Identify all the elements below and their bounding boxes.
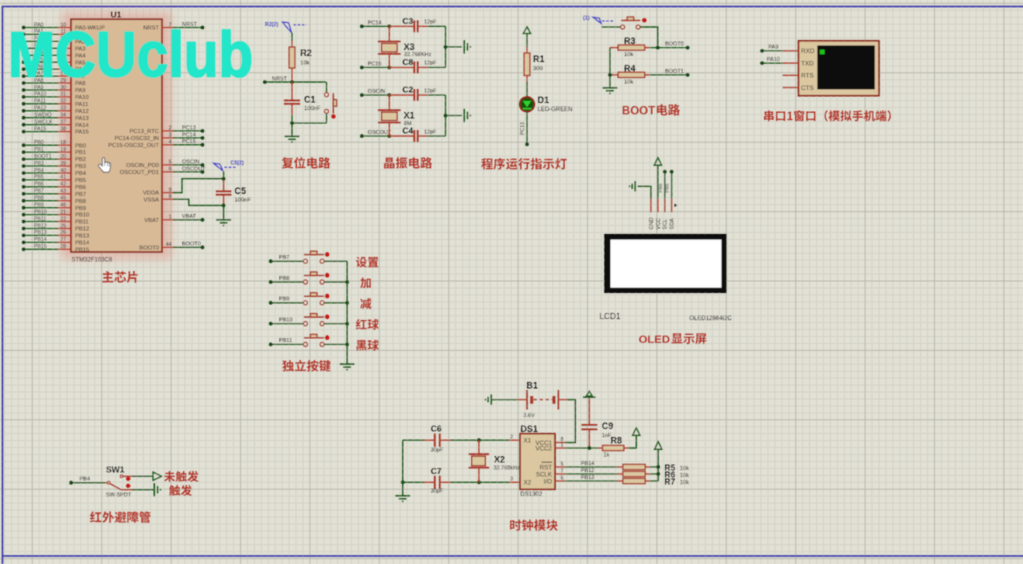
wire net PA7 to U1 pin 17 bbox=[22, 74, 58, 78]
wire net PA10 to U1 pin 31 bbox=[22, 95, 58, 99]
power symbol right 未触发 bbox=[153, 472, 162, 480]
svg-text:BOOT0: BOOT0 bbox=[182, 242, 201, 248]
wire C6 C7 left common bbox=[402, 440, 404, 495]
svg-text:SCLK: SCLK bbox=[536, 471, 553, 478]
svg-text:30pF: 30pF bbox=[431, 488, 444, 494]
DS1 pin 6 I/O bbox=[544, 475, 565, 485]
pushbutton key 减 bbox=[303, 293, 329, 305]
DS1 pin 1 VCC2 bbox=[535, 442, 565, 452]
wire net PB4 to SW1 bbox=[69, 477, 105, 485]
wire VDDA to C5 top bbox=[173, 179, 224, 193]
DS1 pin 3 X2 bbox=[509, 477, 531, 487]
svg-text:PB10: PB10 bbox=[279, 317, 292, 323]
svg-text:VBAT: VBAT bbox=[182, 214, 197, 220]
svg-text:STM32F103C8: STM32F103C8 bbox=[72, 258, 113, 264]
DS1 designator bbox=[520, 424, 538, 434]
net label PB8 rotated bbox=[658, 183, 664, 192]
pushbutton BOOT (horizontal) bbox=[602, 17, 647, 29]
svg-text:C1: C1 bbox=[304, 95, 316, 105]
svg-text:R2: R2 bbox=[300, 48, 312, 58]
wire net PA5 to U1 pin 15 bbox=[22, 60, 58, 64]
svg-text:28: 28 bbox=[60, 244, 66, 250]
crystal X3 bbox=[378, 26, 401, 67]
svg-text:3: 3 bbox=[169, 133, 172, 139]
crystal X1 bbox=[378, 95, 401, 136]
svg-text:4: 4 bbox=[169, 140, 172, 146]
wire net OSCIN from U1 pin 5 bbox=[173, 159, 204, 167]
label 触发 bbox=[169, 485, 192, 496]
svg-text:BOOT0: BOOT0 bbox=[665, 42, 684, 48]
wire net PA1 to U1 pin 11 bbox=[22, 33, 58, 37]
wire net BOOT0 bbox=[650, 42, 690, 50]
svg-text:39: 39 bbox=[60, 161, 66, 167]
svg-text:1: 1 bbox=[169, 215, 172, 221]
wire R3 R4 common to ground bbox=[608, 48, 612, 88]
svg-text:43: 43 bbox=[60, 189, 66, 195]
svg-text:PB11: PB11 bbox=[75, 220, 89, 226]
IC U1 STM32F103C8 selection halo bbox=[61, 11, 172, 260]
svg-text:PB4: PB4 bbox=[75, 171, 87, 177]
goto flag (1) bbox=[583, 16, 615, 24]
svg-text:12pF: 12pF bbox=[424, 129, 437, 135]
sideways ground for OLED GND bbox=[629, 181, 651, 199]
wire key PB7 to common bbox=[324, 260, 347, 262]
wire net NRST node bbox=[263, 76, 326, 84]
svg-text:OSCOUT: OSCOUT bbox=[182, 166, 206, 172]
wire net PA9 to U1 pin 30 bbox=[22, 88, 58, 92]
terminal pin RTS bbox=[783, 73, 814, 80]
svg-text:PB11: PB11 bbox=[279, 338, 292, 344]
svg-text:300: 300 bbox=[533, 66, 543, 72]
label 未触发 bbox=[164, 471, 199, 482]
SW1 value SW-SPDT bbox=[106, 492, 132, 498]
wire net PB11 to U1 pin 22 bbox=[22, 220, 58, 224]
svg-text:C7: C7 bbox=[431, 466, 442, 476]
svg-text:BOOT0: BOOT0 bbox=[139, 245, 159, 251]
U1 pin 4 (PC15-OSC32_OUT) bbox=[108, 140, 173, 149]
svg-text:OSCOUT: OSCOUT bbox=[368, 130, 392, 136]
capacitor C6 bbox=[403, 433, 451, 447]
svg-text:GND: GND bbox=[649, 217, 655, 229]
capacitor C5 bbox=[216, 177, 232, 208]
svg-text:PA11: PA11 bbox=[34, 99, 46, 105]
U1 pin 39 (PB3) bbox=[34, 161, 86, 170]
wire net PA15 to U1 pin 38 bbox=[22, 130, 58, 134]
display LCD1 OLED12864I2C bbox=[604, 234, 726, 293]
U1 pin 14 (PA4) bbox=[34, 50, 86, 59]
U1 pin 2 (PC13_RTC) bbox=[129, 126, 173, 135]
svg-text:OLED12864I2C: OLED12864I2C bbox=[689, 316, 732, 322]
watermark MCUclub bbox=[8, 19, 253, 91]
wire net PA3 to U1 pin 13 bbox=[22, 46, 58, 50]
OLED pin SDA bbox=[670, 199, 678, 230]
label 黑球 bbox=[356, 340, 379, 351]
svg-text:PA11: PA11 bbox=[75, 102, 88, 108]
goto flag C5(2) bbox=[213, 160, 244, 178]
svg-text:SDA: SDA bbox=[670, 218, 676, 229]
svg-text:32.768kHz: 32.768kHz bbox=[494, 466, 521, 472]
wire net PB11 to key bbox=[269, 338, 304, 346]
wire net SWDIO to U1 pin 34 bbox=[22, 116, 58, 120]
wire net PB0 to U1 pin 18 bbox=[22, 143, 58, 147]
label BOOT电路 bbox=[622, 104, 680, 117]
svg-text:5: 5 bbox=[169, 160, 172, 166]
wire net SCL to OLED bbox=[663, 170, 667, 199]
svg-text:LED-GREEN: LED-GREEN bbox=[538, 107, 573, 113]
svg-text:C8: C8 bbox=[402, 57, 413, 67]
svg-text:PB8: PB8 bbox=[34, 196, 44, 202]
svg-text:2: 2 bbox=[510, 435, 513, 441]
svg-text:R3: R3 bbox=[624, 36, 636, 46]
ground clock module bbox=[395, 496, 410, 503]
pushbutton key 加 bbox=[303, 272, 329, 284]
X1 designator and value 8M bbox=[404, 111, 415, 127]
U1 pin 31 (PA10) bbox=[34, 92, 89, 101]
svg-text:46: 46 bbox=[60, 203, 66, 209]
svg-text:CTS: CTS bbox=[801, 85, 814, 92]
svg-text:X3: X3 bbox=[404, 42, 415, 52]
svg-text:PB11: PB11 bbox=[34, 216, 46, 222]
resistor R8 bbox=[598, 445, 629, 450]
wire net PC13 below D1 bbox=[520, 112, 529, 147]
svg-text:PA12: PA12 bbox=[34, 106, 46, 112]
svg-text:PC13: PC13 bbox=[520, 122, 526, 135]
wire net PB15 to U1 pin 28 bbox=[22, 247, 58, 251]
capacitor C4 12pF bbox=[389, 126, 437, 142]
pushbutton key 红球 bbox=[303, 314, 329, 326]
wire net PB14 to U1 pin 27 bbox=[22, 241, 58, 245]
label 独立按键 bbox=[282, 360, 331, 372]
svg-text:BOOT1: BOOT1 bbox=[34, 154, 52, 160]
svg-text:VCC2: VCC2 bbox=[535, 445, 552, 452]
wire C1 bottom node bbox=[290, 115, 326, 125]
svg-text:31: 31 bbox=[60, 92, 66, 98]
label 晶振电路 bbox=[384, 157, 432, 169]
svg-text:PB1: PB1 bbox=[34, 147, 44, 153]
wire net PC13 from U1 pin 2 bbox=[173, 125, 204, 133]
DS1 pin 8 VCC1 bbox=[535, 437, 565, 447]
svg-text:DS1: DS1 bbox=[520, 424, 538, 434]
wire net PA0 to U1 pin 10 bbox=[22, 26, 58, 30]
svg-text:44: 44 bbox=[166, 242, 172, 248]
pushbutton key 黑球 bbox=[303, 334, 329, 346]
C1 designator and value 100nF bbox=[304, 95, 321, 113]
svg-text:21: 21 bbox=[60, 209, 66, 215]
wire net BOOT1 bbox=[650, 69, 690, 77]
svg-text:VCC: VCC bbox=[656, 218, 662, 229]
svg-text:R7: R7 bbox=[664, 477, 675, 487]
U1 pin 26 (PB13) bbox=[34, 230, 89, 239]
svg-text:OLED: OLED bbox=[639, 334, 670, 346]
svg-text:7: 7 bbox=[561, 468, 564, 474]
wire net PB13 IO row bbox=[565, 475, 617, 481]
U1 pin 15 (PA5) bbox=[34, 57, 86, 66]
svg-text:PB10: PB10 bbox=[75, 213, 89, 219]
svg-text:SW-SPDT: SW-SPDT bbox=[106, 492, 132, 498]
net label PB9 rotated bbox=[665, 183, 671, 192]
D1 designator and value LED-GREEN bbox=[538, 95, 573, 113]
R7 designator and value 10k bbox=[664, 477, 689, 487]
svg-text:PA9: PA9 bbox=[768, 45, 778, 51]
DS1 pin 7 SCLK bbox=[536, 468, 565, 478]
svg-text:PB5: PB5 bbox=[75, 178, 86, 184]
ground for X3 bbox=[464, 40, 471, 54]
terminal pin TXD bbox=[783, 60, 815, 67]
svg-text:10k: 10k bbox=[680, 466, 689, 472]
capacitor C2 12pF bbox=[389, 85, 437, 101]
svg-text:VBAT: VBAT bbox=[144, 218, 159, 224]
label 时钟模块 bbox=[510, 519, 558, 530]
U1 pin 25 (PB12) bbox=[34, 223, 89, 232]
power symbol right of R8 bbox=[633, 428, 640, 435]
svg-text:PC15: PC15 bbox=[182, 139, 196, 145]
X3 designator and value 32.768KHz bbox=[404, 42, 432, 58]
U1 pin 32 (PA11) bbox=[34, 99, 88, 108]
wire net OSCOUT from U1 pin 6 bbox=[173, 166, 206, 174]
R2 designator and value 10k bbox=[300, 48, 312, 67]
U1 pin 21 (PB10) bbox=[34, 209, 89, 218]
wire keys common to ground bbox=[346, 261, 348, 364]
U1 pin 19 (PB1) bbox=[34, 147, 86, 156]
svg-text:PB9: PB9 bbox=[34, 203, 44, 209]
svg-text:SW1: SW1 bbox=[106, 465, 125, 475]
label 复位电路 bbox=[282, 157, 331, 169]
svg-text:40: 40 bbox=[60, 168, 66, 174]
wire key PB9 to common bbox=[324, 301, 349, 305]
svg-text:PB3: PB3 bbox=[34, 161, 44, 167]
R1 designator and value 300 bbox=[533, 54, 545, 72]
svg-text:9: 9 bbox=[169, 187, 172, 193]
svg-text:38: 38 bbox=[60, 126, 66, 132]
svg-text:10k: 10k bbox=[680, 480, 689, 486]
wire R1 to D1 bbox=[526, 82, 528, 98]
svg-text:42: 42 bbox=[60, 182, 66, 188]
wire net PA11 to U1 pin 32 bbox=[22, 102, 58, 106]
wire net PB14 RST row bbox=[565, 461, 617, 467]
wire C5 to ground bbox=[223, 205, 225, 219]
label 加 bbox=[360, 278, 371, 289]
svg-text:PB13: PB13 bbox=[581, 475, 594, 481]
wire net OSCOUT bbox=[360, 130, 392, 138]
R6 designator and value 10k bbox=[664, 470, 689, 480]
svg-text:PB12: PB12 bbox=[75, 227, 89, 233]
svg-text:6: 6 bbox=[561, 475, 564, 481]
svg-text:1k: 1k bbox=[603, 453, 609, 459]
U1 pin 11 (PA1) bbox=[34, 29, 86, 38]
svg-text:5: 5 bbox=[561, 461, 564, 467]
svg-text:37: 37 bbox=[60, 120, 66, 126]
svg-text:BOOT1: BOOT1 bbox=[665, 69, 684, 75]
svg-text:DS1302: DS1302 bbox=[520, 492, 542, 498]
wire net PB9 to key bbox=[269, 297, 304, 305]
svg-text:20: 20 bbox=[60, 154, 66, 160]
svg-text:30pF: 30pF bbox=[431, 447, 444, 453]
wire SW1 to ground bbox=[133, 489, 155, 491]
svg-text:OSCIN: OSCIN bbox=[368, 89, 385, 95]
U1 pin 18 (PB0) bbox=[34, 140, 86, 149]
svg-text:PC15-OSC32_OUT: PC15-OSC32_OUT bbox=[108, 143, 159, 149]
svg-text:R4: R4 bbox=[624, 63, 636, 73]
svg-text:45: 45 bbox=[60, 196, 66, 202]
wire VSSA to C5 bottom bbox=[173, 199, 224, 205]
wire net PB3 to U1 pin 39 bbox=[22, 164, 58, 168]
terminal pin CTS bbox=[783, 85, 814, 92]
svg-text:PB15: PB15 bbox=[34, 244, 47, 250]
resistor R4 bbox=[610, 72, 650, 77]
svg-text:1: 1 bbox=[561, 442, 564, 448]
svg-text:RST: RST bbox=[540, 464, 553, 471]
U1 pin 12 (PA2) bbox=[34, 36, 86, 45]
svg-text:3: 3 bbox=[510, 477, 513, 483]
svg-text:R2(2): R2(2) bbox=[265, 22, 278, 28]
U1 pin 29 (PA8) bbox=[34, 78, 86, 87]
U1 pin 28 (PB15) bbox=[34, 244, 89, 253]
svg-text:C9: C9 bbox=[602, 421, 614, 431]
U1 pin 43 (PB7) bbox=[34, 189, 86, 198]
U1 pin 9 (VDDA) bbox=[143, 187, 173, 196]
svg-text:SWCLK: SWCLK bbox=[34, 120, 53, 126]
wire net PB10 to key bbox=[269, 317, 304, 325]
OLED pin GND bbox=[649, 199, 655, 230]
U1 pin 33 (PA12) bbox=[34, 106, 89, 115]
svg-text:VSSA: VSSA bbox=[144, 197, 160, 203]
pushbutton key 设置 bbox=[303, 251, 329, 263]
wire net BOOT1 to U1 pin 20 bbox=[22, 157, 58, 161]
wire net PB12 to U1 pin 25 bbox=[22, 227, 58, 231]
svg-text:C5(2): C5(2) bbox=[231, 160, 244, 166]
ground for X1 bbox=[464, 109, 471, 122]
U1 pin 27 (PB14) bbox=[34, 237, 90, 246]
svg-text:PB14: PB14 bbox=[75, 241, 90, 247]
U1 pin 5 (OSCIN_PD0) bbox=[126, 160, 173, 169]
svg-text:PB4: PB4 bbox=[80, 477, 90, 483]
label 红外避障管 bbox=[90, 511, 151, 523]
OLED pin VCC bbox=[656, 199, 662, 230]
svg-text:12pF: 12pF bbox=[424, 61, 437, 67]
label 主芯片 bbox=[102, 271, 138, 283]
U1 pin 46 (PB9) bbox=[34, 203, 86, 212]
SW1 designator bbox=[106, 465, 125, 475]
wire to ground reset bbox=[291, 123, 293, 136]
IC U1 STM32F103C8 body bbox=[71, 19, 162, 252]
U1 pin 34 (PA13) bbox=[34, 113, 89, 122]
svg-text:PA10: PA10 bbox=[34, 92, 46, 98]
wire net PB5 to U1 pin 41 bbox=[22, 178, 58, 182]
capacitor C9 bbox=[581, 398, 597, 448]
svg-text:PC13_RTC: PC13_RTC bbox=[129, 129, 159, 135]
resistor R7 bbox=[617, 478, 650, 483]
U1 pin 30 (PA9) bbox=[34, 85, 86, 94]
ground symbol above C9 bbox=[583, 391, 596, 397]
svg-text:(1): (1) bbox=[583, 16, 590, 22]
LED D1 LED-GREEN bbox=[520, 97, 535, 112]
svg-text:6: 6 bbox=[169, 167, 172, 173]
U1 value STM32F103C8 bbox=[72, 258, 113, 264]
LCD1 value OLED12864I2C bbox=[689, 316, 732, 322]
power symbol above R5 R6 R7 bbox=[655, 442, 662, 450]
svg-text:PB9: PB9 bbox=[279, 297, 289, 303]
U1 pin 44 (BOOT0) bbox=[139, 242, 173, 251]
U1 pin 42 (PB6) bbox=[34, 182, 86, 191]
svg-text:PB5: PB5 bbox=[34, 175, 44, 181]
label OLED显示屏 bbox=[639, 333, 707, 346]
svg-text:PB7: PB7 bbox=[75, 192, 86, 198]
B1 designator and value 3.6V bbox=[523, 381, 538, 420]
svg-text:100nF: 100nF bbox=[235, 198, 252, 204]
LCD1 designator bbox=[600, 312, 621, 321]
wire net VBAT from U1 pin 1 bbox=[173, 214, 204, 222]
svg-text:10k: 10k bbox=[300, 61, 309, 67]
svg-text:PB15: PB15 bbox=[75, 247, 89, 253]
wire net PA8 to U1 pin 29 bbox=[22, 81, 58, 85]
resistor R5 bbox=[617, 464, 650, 469]
svg-text:OSCOUT_PD1: OSCOUT_PD1 bbox=[120, 170, 159, 176]
battery B1 bbox=[517, 390, 567, 410]
wire net SWCLK to U1 pin 37 bbox=[22, 123, 58, 127]
wire battery to DS1 VCC1 bbox=[565, 400, 575, 443]
DS1 pin 5 RST bbox=[540, 461, 566, 471]
capacitor C7 bbox=[403, 476, 451, 490]
svg-text:VDDA: VDDA bbox=[143, 191, 159, 197]
svg-text:32: 32 bbox=[60, 99, 66, 105]
wire net PA4 to U1 pin 14 bbox=[22, 53, 58, 57]
svg-text:PB6: PB6 bbox=[75, 185, 86, 191]
wire key PB11 to common bbox=[324, 343, 349, 347]
svg-text:PB13: PB13 bbox=[34, 230, 47, 236]
svg-text:PB9: PB9 bbox=[75, 206, 86, 212]
svg-text:R1: R1 bbox=[533, 54, 545, 64]
power symbol above R1 bbox=[523, 27, 530, 47]
svg-text:TXD: TXD bbox=[801, 60, 814, 67]
svg-text:PB0: PB0 bbox=[75, 143, 86, 149]
svg-text:PB6: PB6 bbox=[34, 182, 44, 188]
svg-text:10k: 10k bbox=[624, 80, 633, 86]
C5 designator and value 100nF bbox=[235, 186, 252, 204]
svg-text:PA14: PA14 bbox=[75, 123, 90, 129]
svg-text:PA12: PA12 bbox=[75, 109, 89, 115]
wire net PB10 to U1 pin 21 bbox=[22, 213, 58, 217]
svg-text:100nF: 100nF bbox=[304, 106, 321, 112]
wire net BOOT0 from U1 pin 44 bbox=[173, 242, 204, 250]
svg-text:C6: C6 bbox=[431, 424, 442, 434]
svg-text:34: 34 bbox=[60, 113, 66, 119]
svg-text:D1: D1 bbox=[538, 95, 550, 105]
svg-text:8: 8 bbox=[169, 194, 172, 200]
sideways ground 触发 bbox=[154, 483, 161, 496]
wire X3 caps to ground bbox=[428, 26, 462, 67]
label 减 bbox=[360, 298, 371, 309]
svg-text:PB13: PB13 bbox=[75, 234, 89, 240]
wire net NRST from U1 pin 7 bbox=[173, 22, 204, 30]
svg-text:PC14-OSC32_IN: PC14-OSC32_IN bbox=[115, 136, 159, 142]
wire R8 to power bbox=[629, 435, 637, 448]
svg-text:41: 41 bbox=[60, 175, 66, 181]
svg-text:I/O: I/O bbox=[544, 478, 552, 485]
DS1 value DS1302 bbox=[520, 492, 542, 498]
wire net VCC2 row bbox=[565, 446, 598, 450]
label 红球 bbox=[356, 319, 379, 330]
ground keys bbox=[340, 364, 355, 371]
svg-text:PB8: PB8 bbox=[279, 276, 289, 282]
wire key PB8 to common bbox=[324, 280, 349, 284]
wire net OSCIN bbox=[360, 89, 391, 97]
capacitor C1 bbox=[284, 82, 300, 115]
svg-text:PB7: PB7 bbox=[279, 255, 289, 261]
svg-text:25: 25 bbox=[60, 223, 66, 229]
R3 designator and value 10k bbox=[624, 36, 636, 58]
svg-text:PA13: PA13 bbox=[75, 116, 89, 122]
wire net PB7 to key bbox=[269, 255, 304, 263]
